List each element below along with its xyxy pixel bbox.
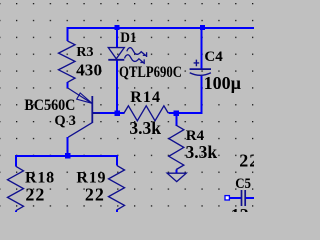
svg-text:R14: R14 <box>130 89 161 106</box>
svg-text:430: 430 <box>76 60 102 79</box>
svg-text:C4: C4 <box>204 49 223 65</box>
svg-text:BC560C: BC560C <box>24 97 75 114</box>
svg-text:22: 22 <box>85 185 105 205</box>
svg-text:3.3k: 3.3k <box>129 118 161 138</box>
svg-text:QTLP690C: QTLP690C <box>119 64 182 81</box>
svg-text:22: 22 <box>25 185 45 205</box>
svg-text:3.3k: 3.3k <box>186 142 218 162</box>
svg-text:22: 22 <box>239 150 254 170</box>
svg-text:Q3: Q3 <box>54 113 78 129</box>
svg-text:12n: 12n <box>231 205 254 212</box>
svg-text:C5: C5 <box>235 176 251 192</box>
svg-text:R3: R3 <box>76 45 93 60</box>
svg-text:D1: D1 <box>120 30 137 46</box>
svg-text:100µ: 100µ <box>204 73 242 93</box>
